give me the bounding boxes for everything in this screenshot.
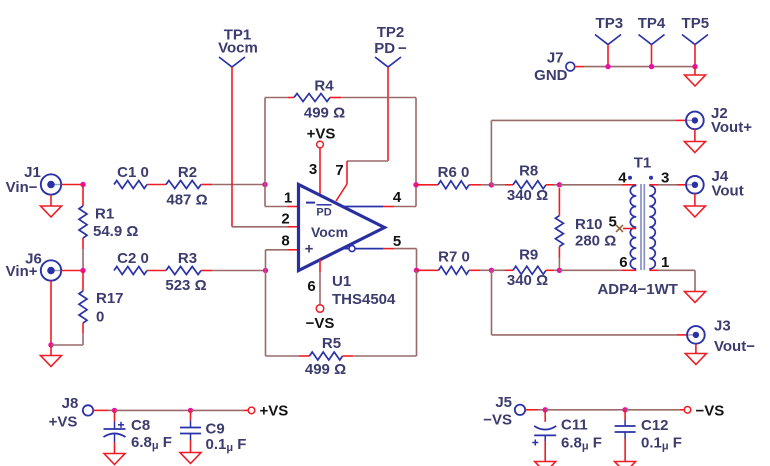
wire [649, 184, 686, 186]
wire [147, 184, 166, 186]
svg-text:C2 0: C2 0 [117, 250, 149, 267]
wire [491, 120, 686, 184]
svg-text:R3: R3 [178, 250, 197, 267]
svg-text:1: 1 [661, 254, 669, 271]
svg-text:6.8μ F: 6.8μ F [561, 435, 602, 453]
ground [685, 354, 706, 365]
wire [469, 184, 491, 186]
node N5 [489, 268, 494, 273]
wire [545, 409, 625, 411]
resistor R4 [294, 78, 345, 122]
svg-text:4: 4 [393, 189, 402, 206]
svg-text:TP5: TP5 [682, 15, 710, 32]
wire [61, 184, 83, 186]
svg-text:TP4: TP4 [638, 15, 666, 32]
svg-text:Vin+: Vin+ [6, 263, 38, 280]
node junction A2 [80, 268, 85, 273]
svg-text:R7 0: R7 0 [438, 249, 470, 266]
svg-text:T1: T1 [634, 155, 652, 172]
svg-text:J3: J3 [714, 318, 731, 335]
svg-text:Vocm: Vocm [311, 224, 348, 240]
pin number 4 [618, 169, 627, 186]
capacitor C11 [532, 410, 587, 462]
node N1 [262, 182, 267, 187]
svg-text:0: 0 [96, 309, 104, 326]
wire [115, 409, 191, 411]
pin number 4 [393, 189, 402, 206]
node junction [112, 408, 117, 413]
wire [343, 270, 417, 356]
svg-text:PD −: PD − [374, 40, 407, 57]
transformer label T1 [634, 155, 652, 172]
test point TP1 [218, 27, 258, 68]
wire [558, 188, 560, 216]
wire [607, 45, 609, 67]
resistor R17 [79, 290, 124, 326]
wire [575, 66, 695, 68]
wire [231, 67, 233, 227]
wire [265, 185, 299, 207]
ground [41, 206, 62, 217]
power +VS terminal [248, 403, 288, 420]
pin number 7 [335, 162, 343, 179]
capacitor C12 value [641, 435, 682, 453]
svg-text:2: 2 [281, 211, 289, 228]
pin number 1 [661, 254, 669, 271]
node junction [622, 407, 627, 412]
wire [492, 269, 514, 271]
svg-text:3: 3 [309, 161, 317, 178]
test point TP2 [374, 24, 407, 67]
node junction [48, 342, 53, 347]
svg-text:R1: R1 [95, 206, 114, 223]
wire [558, 247, 560, 271]
connector J2 [686, 105, 752, 136]
node N2 [413, 182, 418, 187]
capacitor C2 [114, 250, 149, 275]
svg-text:−VS: −VS [696, 402, 725, 419]
svg-text:R2: R2 [178, 164, 197, 181]
connector J1 [6, 164, 62, 196]
svg-text:0.1μ F: 0.1μ F [206, 436, 247, 454]
svg-text:4: 4 [618, 169, 627, 186]
wire [61, 270, 83, 272]
svg-text:Vout+: Vout+ [711, 119, 752, 136]
wire [265, 98, 294, 185]
transformer T1 primary winding [630, 186, 636, 269]
wire [694, 129, 696, 141]
wire [266, 271, 310, 357]
wire [651, 45, 653, 67]
svg-text:C9: C9 [206, 421, 225, 438]
node junction [188, 408, 193, 413]
wire [559, 184, 636, 186]
svg-text:C1 0: C1 0 [117, 164, 149, 181]
svg-text:5: 5 [609, 214, 617, 231]
wire [93, 409, 114, 411]
svg-text:+VS: +VS [260, 403, 289, 420]
svg-text:R8: R8 [519, 163, 538, 180]
svg-text:C11: C11 [561, 417, 588, 434]
svg-text:C8: C8 [131, 417, 150, 434]
wire [147, 270, 166, 272]
node junction A1 [80, 182, 85, 187]
capacitor C9 [180, 410, 225, 452]
svg-text:TP3: TP3 [596, 15, 624, 32]
power -VS [306, 305, 335, 332]
ground [104, 454, 125, 465]
wire [50, 345, 52, 356]
wire [82, 271, 84, 292]
test point TP5 [682, 15, 710, 44]
wire [387, 67, 389, 161]
no-connect X pin 5 [616, 225, 623, 232]
ground [685, 75, 706, 86]
wire [266, 250, 299, 271]
wire center tap [623, 228, 636, 230]
op-amp U1 [299, 185, 397, 309]
test point TP3 [595, 15, 623, 44]
svg-text:499 Ω: 499 Ω [305, 361, 346, 378]
svg-text:+VS: +VS [307, 126, 336, 143]
wire [695, 344, 697, 354]
resistor R3 [165, 250, 206, 294]
connector J4 [686, 168, 744, 200]
svg-text:THS4504: THS4504 [332, 291, 396, 308]
wire [625, 409, 684, 411]
svg-text:Vout: Vout [712, 183, 744, 200]
svg-text:−VS: −VS [306, 315, 335, 332]
wire [492, 270, 688, 335]
ground [685, 292, 706, 303]
svg-text:340 Ω: 340 Ω [507, 187, 548, 204]
transformer core [641, 184, 644, 270]
capacitor C12 [615, 410, 669, 462]
svg-text:280 Ω: 280 Ω [575, 233, 616, 250]
svg-text:J5: J5 [495, 394, 512, 411]
resistor R2 [166, 164, 208, 208]
transformer T1 secondary winding [649, 186, 655, 269]
ground [41, 356, 62, 367]
capacitor C1 [114, 164, 149, 189]
wire [546, 184, 559, 186]
node junction [692, 64, 697, 69]
pin number 6 [619, 254, 627, 271]
power -VS terminal [684, 402, 724, 419]
wire [416, 184, 438, 186]
svg-text:Vout−: Vout− [714, 338, 755, 355]
svg-text:54.9 Ω: 54.9 Ω [93, 223, 138, 240]
wire [201, 184, 265, 186]
node junction [605, 64, 610, 69]
wire [330, 98, 416, 185]
wire [50, 281, 52, 345]
resistor R10 [555, 216, 616, 250]
wire pin 4 [341, 185, 416, 207]
svg-text:ADP4−1WT: ADP4−1WT [597, 281, 677, 298]
svg-text:6.8μ F: 6.8μ F [131, 434, 172, 452]
resistor R5 [305, 335, 346, 378]
wire [417, 269, 439, 271]
wire pin 3 [319, 148, 321, 196]
ground [684, 142, 705, 153]
node NB [263, 268, 268, 273]
svg-text:0.1μ F: 0.1μ F [641, 435, 682, 453]
svg-text:487 Ω: 487 Ω [166, 191, 207, 208]
svg-text:8: 8 [281, 233, 289, 250]
pin number 2 [281, 211, 289, 228]
wire [694, 67, 696, 75]
svg-text:7: 7 [335, 162, 343, 179]
node N3 [414, 268, 419, 273]
connector J7 [534, 49, 575, 84]
resistor R9 [507, 247, 548, 289]
wire [82, 185, 84, 207]
wire [347, 160, 388, 162]
wire [191, 409, 249, 411]
svg-text:R4: R4 [314, 78, 334, 95]
svg-text:6: 6 [619, 254, 627, 271]
wire [649, 270, 695, 291]
svg-text:TP2: TP2 [377, 24, 405, 41]
connector J5 [483, 394, 525, 429]
pin number 3 [309, 161, 317, 178]
svg-text:C12: C12 [641, 417, 669, 434]
svg-text:523 Ω: 523 Ω [165, 277, 206, 294]
node N6 [557, 182, 562, 187]
svg-text:1: 1 [284, 190, 292, 207]
wire [201, 270, 266, 272]
wire [694, 194, 696, 206]
wire [546, 269, 559, 271]
polarity dot [628, 176, 632, 180]
node N7 [557, 268, 562, 273]
svg-text:J7: J7 [547, 49, 564, 66]
capacitor C8 value [131, 434, 172, 452]
wire [491, 184, 513, 186]
connector J8 [49, 395, 94, 431]
polarity dot [649, 176, 653, 180]
ground [615, 462, 636, 466]
pin number 3 [661, 169, 669, 186]
ground [684, 206, 705, 217]
svg-text:J8: J8 [62, 395, 79, 412]
wire [525, 409, 545, 411]
connector J6 [6, 251, 62, 281]
capacitor C11 value [561, 435, 602, 453]
wire pin 6 [319, 260, 321, 305]
svg-text:R10: R10 [575, 216, 603, 233]
resistor R7 [438, 249, 470, 275]
resistor R8 [507, 163, 548, 205]
wire [232, 226, 299, 228]
pin number 1 [284, 190, 292, 207]
svg-text:+: + [305, 241, 314, 258]
svg-text:PD: PD [316, 207, 331, 219]
wire [82, 238, 84, 271]
capacitor C9 value [206, 436, 247, 454]
wire [694, 45, 696, 67]
svg-text:U1: U1 [332, 273, 351, 290]
wire pin 5 [341, 246, 417, 271]
wire pin 7 [336, 161, 347, 201]
capacitor C8 [104, 410, 151, 453]
power +VS [307, 126, 336, 148]
pin number 8 [281, 233, 289, 250]
svg-text:−VS: −VS [483, 412, 512, 429]
svg-text:Vocm: Vocm [218, 40, 258, 57]
resistor R6 [438, 164, 470, 189]
wire [559, 269, 636, 271]
wire [469, 269, 492, 271]
wire [51, 323, 83, 345]
pin number 5 [609, 214, 617, 231]
node N4 [489, 182, 494, 187]
svg-text:+VS: +VS [49, 414, 78, 431]
connector J3 [687, 318, 755, 356]
svg-text:R6 0: R6 0 [438, 164, 470, 181]
test point TP4 [638, 15, 666, 44]
svg-text:6: 6 [307, 278, 315, 295]
svg-text:R17: R17 [96, 290, 124, 307]
svg-text:R5: R5 [322, 335, 341, 352]
svg-text:5: 5 [393, 233, 401, 250]
svg-text:340 Ω: 340 Ω [507, 272, 548, 289]
node junction [543, 407, 548, 412]
pin number 6 [307, 278, 315, 295]
pin number 5 [393, 233, 401, 250]
svg-text:GND: GND [534, 67, 568, 84]
ground [180, 453, 201, 464]
resistor R1 [79, 206, 138, 241]
svg-text:499 Ω: 499 Ω [304, 105, 345, 122]
ground [535, 462, 556, 466]
svg-text:3: 3 [661, 169, 669, 186]
node junction [649, 64, 654, 69]
svg-text:R9: R9 [519, 247, 538, 264]
svg-text:Vin−: Vin− [6, 179, 38, 196]
wire [50, 195, 52, 206]
transformer value ADP4-1WT [597, 281, 677, 298]
